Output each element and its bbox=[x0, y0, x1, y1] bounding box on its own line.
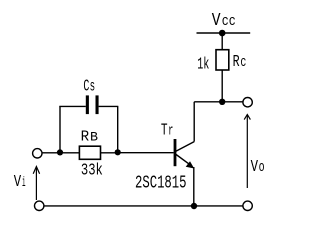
svg-text:V: V bbox=[251, 158, 259, 177]
svg-text:V: V bbox=[212, 11, 221, 31]
wire: Cs branch right vertical bbox=[117, 106, 119, 152]
wire: base wire bbox=[118, 152, 174, 154]
wire: collector node to output terminal bbox=[194, 101, 243, 103]
resistor Rc bbox=[216, 50, 229, 70]
wire: collector vertical lead bbox=[193, 102, 195, 142]
svg-text:R: R bbox=[81, 129, 90, 146]
svg-text:i: i bbox=[22, 175, 26, 191]
svg-text:1k: 1k bbox=[197, 55, 209, 74]
node: input junction dot (Cs/RB left) bbox=[57, 149, 63, 155]
label Rc bbox=[233, 53, 247, 72]
svg-text:R: R bbox=[233, 53, 240, 72]
node: emitter-ground junction dot bbox=[191, 203, 197, 209]
wire: RB right to base bbox=[101, 152, 118, 154]
svg-text:2SC1815: 2SC1815 bbox=[135, 174, 187, 194]
label RB bbox=[81, 129, 99, 146]
node: collector junction dot bbox=[219, 99, 225, 105]
capacitor Cs: left plate bbox=[86, 95, 89, 114]
svg-text:C: C bbox=[83, 77, 89, 96]
wire: Cs branch right horizontal bbox=[99, 105, 119, 107]
svg-text:r: r bbox=[168, 122, 173, 139]
wire: bottom ground rail bbox=[44, 205, 243, 207]
svg-text:c: c bbox=[240, 54, 246, 71]
label Vo bbox=[251, 158, 265, 177]
label Tr bbox=[161, 121, 173, 140]
terminal: bottom-left circle bbox=[35, 201, 44, 210]
label Vi bbox=[14, 173, 26, 192]
arrow: Vo output voltage arrow bbox=[244, 115, 250, 189]
label Vcc bbox=[212, 11, 236, 31]
wire: Cs branch left horizontal bbox=[59, 105, 86, 107]
svg-text:cc: cc bbox=[222, 13, 236, 30]
svg-text:B: B bbox=[90, 130, 98, 145]
svg-text:33k: 33k bbox=[81, 162, 103, 181]
label Cs bbox=[83, 77, 95, 96]
node: Vcc junction dot bbox=[219, 30, 226, 37]
transistor Q1 Tr: emitter arrowhead bbox=[186, 161, 195, 168]
terminal: bottom-right circle bbox=[243, 201, 252, 210]
svg-text:s: s bbox=[90, 77, 96, 95]
svg-text:o: o bbox=[259, 159, 265, 176]
terminal: input top-left circle bbox=[33, 149, 42, 158]
resistor RB bbox=[79, 146, 100, 159]
transistor Q1 Tr: collector diagonal bbox=[175, 142, 194, 152]
svg-text:V: V bbox=[14, 173, 22, 192]
transistor Q1 Tr: emitter diagonal bbox=[175, 154, 189, 165]
transistor Q1 Tr: base bar bbox=[174, 139, 177, 166]
terminal: output top circle bbox=[243, 98, 252, 107]
arrow: Vi input voltage arrow bbox=[33, 167, 39, 201]
wire: emitter vertical lead bbox=[193, 167, 195, 206]
svg-text:T: T bbox=[161, 121, 168, 140]
wire: Vcc to Rc bbox=[221, 33, 223, 50]
wire: input wire from terminal to RB bbox=[42, 152, 79, 154]
wire: Vcc top rail bbox=[197, 32, 251, 34]
node: RB/Cs right junction dot bbox=[115, 149, 121, 155]
capacitor Cs: right plate bbox=[96, 95, 99, 114]
wire: Rc to collector node bbox=[221, 70, 223, 102]
wire: Cs branch left vertical bbox=[59, 106, 61, 152]
